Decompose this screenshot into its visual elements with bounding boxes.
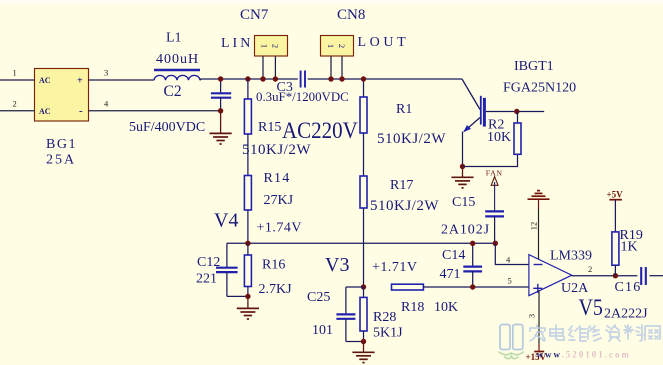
svg-text:3: 3: [104, 68, 108, 78]
svg-text:C12: C12: [197, 255, 220, 270]
capacitor C3: [301, 71, 305, 88]
node emitter junction: [460, 164, 465, 169]
node output R19: [613, 273, 618, 278]
ground under R16: [237, 308, 259, 319]
wire emitter to ground: [462, 167, 464, 178]
wire CN8 pin2: [341, 56, 343, 79]
wire emitter to R2 bottom: [463, 154, 518, 166]
svg-text:LOUT: LOUT: [358, 35, 410, 50]
capacitor C12: [216, 243, 248, 296]
svg-text:2A102J: 2A102J: [441, 223, 490, 238]
capacitor C25: [336, 287, 363, 342]
svg-text:1: 1: [326, 44, 336, 48]
svg-text:+5V: +5V: [607, 190, 624, 200]
svg-text:C15: C15: [452, 195, 475, 210]
wire pin12: [538, 209, 540, 259]
node CN7 pin2: [273, 76, 278, 81]
wire R16 to ground: [247, 297, 249, 309]
wire V4 node to comparator pin4: [227, 242, 495, 244]
svg-text:2: 2: [337, 44, 347, 48]
svg-text:R18: R18: [401, 300, 424, 315]
svg-text:C14: C14: [442, 248, 465, 263]
svg-text:R28: R28: [373, 310, 396, 325]
svg-text:221: 221: [196, 272, 217, 287]
ground under C2: [210, 133, 232, 144]
node gate/R2: [514, 109, 519, 114]
svg-text:25A: 25A: [46, 153, 76, 168]
svg-text:+1.71V: +1.71V: [372, 260, 418, 275]
svg-text:1: 1: [13, 68, 17, 78]
svg-text:1K: 1K: [621, 240, 638, 255]
node R1 top: [361, 76, 366, 81]
svg-text:AC220V: AC220V: [282, 117, 358, 143]
svg-text:101: 101: [312, 323, 333, 338]
capacitor C15: [485, 211, 504, 243]
resistor R15: [244, 79, 251, 134]
svg-text:12: 12: [529, 222, 539, 231]
svg-text:L1: L1: [166, 31, 182, 46]
ground above pin12: [528, 191, 550, 200]
capacitor C14: [463, 243, 482, 287]
node C2 bottom: [218, 108, 223, 113]
wire CN7 pin1: [262, 56, 264, 79]
svg-text:3: 3: [527, 314, 537, 318]
resistor R17: [360, 176, 367, 208]
svg-text:2A222J: 2A222J: [604, 307, 648, 322]
svg-text:C25: C25: [307, 290, 330, 305]
node V4: [245, 241, 250, 246]
svg-text:+: +: [77, 76, 83, 87]
wire R17 to V3 node: [363, 208, 365, 287]
watermark chinese text: [530, 325, 660, 341]
resistor R14: [244, 176, 251, 211]
resistor R18: [392, 284, 424, 290]
wire R18 to pin5: [423, 286, 529, 288]
wire CN7 pin2: [274, 56, 276, 79]
svg-text:C16: C16: [615, 280, 642, 295]
svg-text:LM339: LM339: [550, 249, 592, 264]
svg-text:2: 2: [588, 264, 592, 274]
node R28 bottom: [361, 339, 366, 344]
svg-text:510KJ/2W: 510KJ/2W: [377, 131, 446, 147]
op-amp U2A LM339: [529, 255, 572, 296]
node C14 top: [470, 241, 475, 246]
watermark book icon: [499, 325, 524, 359]
wire pin3: [538, 291, 540, 344]
wire C2 to ground: [220, 111, 222, 134]
ground under emitter: [451, 177, 473, 188]
resistor R16: [244, 243, 251, 296]
svg-text:27KJ: 27KJ: [264, 193, 294, 208]
resistor R28: [360, 287, 367, 342]
svg-text:10K: 10K: [434, 300, 458, 315]
svg-text:R14: R14: [264, 171, 291, 186]
connector CN8: [321, 36, 354, 57]
wire pin1 to BG1: [0, 79, 35, 81]
node C14 bottom: [470, 284, 475, 289]
svg-text:510KJ/2W: 510KJ/2W: [242, 142, 311, 158]
node V3: [361, 284, 366, 289]
svg-text:V4: V4: [214, 210, 238, 232]
node C15 bottom: [493, 241, 498, 246]
svg-text:10K: 10K: [487, 130, 511, 145]
wire C3 to IGBT collector: [308, 78, 462, 80]
capacitor C16: [641, 267, 663, 285]
svg-text:R16: R16: [262, 258, 285, 273]
node C2 top: [218, 76, 223, 81]
svg-text:CN8: CN8: [337, 7, 365, 23]
connector CN7: [255, 36, 288, 57]
svg-text:FGA25N120: FGA25N120: [503, 81, 576, 96]
svg-text:www.520101.com: www.520101.com: [537, 350, 632, 360]
bridge rectifier BG1: [35, 69, 89, 122]
svg-text:IBGT1: IBGT1: [514, 59, 554, 74]
node R16 bottom: [245, 294, 250, 299]
svg-text:BG1: BG1: [46, 137, 77, 152]
wire pin4 jog: [495, 243, 529, 264]
svg-text:5uF/400VDC: 5uF/400VDC: [129, 120, 205, 135]
svg-text:400uH: 400uH: [156, 52, 199, 67]
ground under R28: [352, 352, 374, 362]
resistor R19: [612, 232, 619, 276]
resistor R2: [514, 112, 521, 155]
power +5V: [607, 190, 624, 232]
svg-text:R15: R15: [258, 120, 281, 135]
node R15 top: [245, 76, 250, 81]
svg-text:R17: R17: [390, 178, 413, 193]
svg-text:AC: AC: [39, 107, 51, 116]
svg-text:1: 1: [260, 44, 270, 48]
wire R1 to R17: [363, 133, 365, 176]
svg-text:CN7: CN7: [240, 7, 269, 23]
wire R28 to ground: [363, 342, 365, 353]
svg-text:510KJ/2W: 510KJ/2W: [370, 198, 439, 214]
svg-text:5K1J: 5K1J: [373, 326, 403, 341]
power +15V: [526, 352, 547, 363]
wire R15 to R14: [247, 134, 249, 176]
wire IGBT emitter down: [462, 132, 464, 167]
wire BG1 pin3 to L1: [89, 79, 155, 81]
power FAN: [486, 168, 503, 211]
svg-text:471: 471: [440, 267, 461, 282]
svg-text:2.7KJ: 2.7KJ: [259, 282, 293, 297]
svg-text:2: 2: [13, 99, 17, 109]
wire R14 to V4 node: [247, 210, 249, 243]
svg-text:AC: AC: [39, 76, 51, 85]
node CN8 pin2: [339, 76, 344, 81]
svg-text:0.3uF*/1200VDC: 0.3uF*/1200VDC: [256, 90, 349, 104]
node CN7 pin1: [260, 76, 265, 81]
wire IGBT gate: [486, 111, 544, 113]
svg-text:R1: R1: [396, 102, 412, 117]
svg-text:2: 2: [271, 44, 281, 48]
svg-text:V5: V5: [579, 295, 603, 321]
wire L1 to C3: [200, 79, 298, 80]
IGBT IBGT1: [462, 79, 484, 132]
svg-text:C2: C2: [164, 83, 182, 100]
svg-text:FAN: FAN: [486, 168, 503, 177]
svg-text:5: 5: [508, 276, 512, 286]
resistor R1: [360, 79, 367, 133]
inductor L1: [154, 70, 200, 80]
svg-text:+1.74V: +1.74V: [257, 221, 303, 236]
wire pin2 to BG1: [0, 110, 35, 112]
svg-text:LIN: LIN: [221, 36, 253, 51]
node CN8 pin1: [328, 76, 333, 81]
wire output pin2: [572, 275, 638, 277]
svg-text:V3: V3: [325, 254, 349, 276]
svg-text:-: -: [79, 105, 83, 117]
wire CN8 pin1: [330, 56, 332, 79]
capacitor C2: [211, 79, 231, 111]
wire BG1 pin4 to C2 node: [89, 110, 221, 112]
